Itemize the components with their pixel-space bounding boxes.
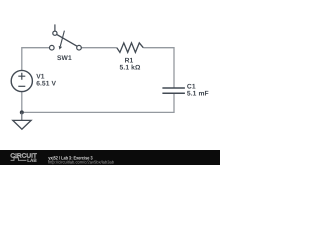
svg-text:http://circuitlab.com/c/2av5bx: http://circuitlab.com/c/2av5bx/lab3ab xyxy=(48,160,115,165)
label R1 value xyxy=(120,58,141,72)
wire: junction up to V1 bottom xyxy=(21,92,23,112)
voltage source V1 xyxy=(11,70,32,91)
svg-text:LAB: LAB xyxy=(27,158,37,164)
node junction dot xyxy=(20,110,24,114)
svg-text:5.1 kΩ: 5.1 kΩ xyxy=(120,65,141,72)
svg-text:SW1: SW1 xyxy=(57,55,72,62)
wire: R1 right lead to top-right corner down to C1 top plate xyxy=(143,48,174,88)
footer bar xyxy=(0,150,220,165)
ground xyxy=(13,112,31,129)
resistor R1 xyxy=(117,43,144,53)
svg-text:5.1 mF: 5.1 mF xyxy=(187,91,209,98)
footer logo waveform xyxy=(11,158,27,161)
capacitor C1 xyxy=(162,88,185,93)
wire: V1 top to top-left corner to SW1 left terminal xyxy=(22,48,50,70)
wire: C1 bottom plate to bottom-right corner to junction xyxy=(22,94,174,113)
switch SW1 xyxy=(50,24,82,50)
svg-text:6.51 V: 6.51 V xyxy=(36,80,56,87)
label V1 value xyxy=(36,74,56,88)
label C1 value xyxy=(187,84,209,98)
svg-text:C1: C1 xyxy=(187,84,196,91)
wire: SW1 right terminal to R1 left lead xyxy=(81,47,117,49)
